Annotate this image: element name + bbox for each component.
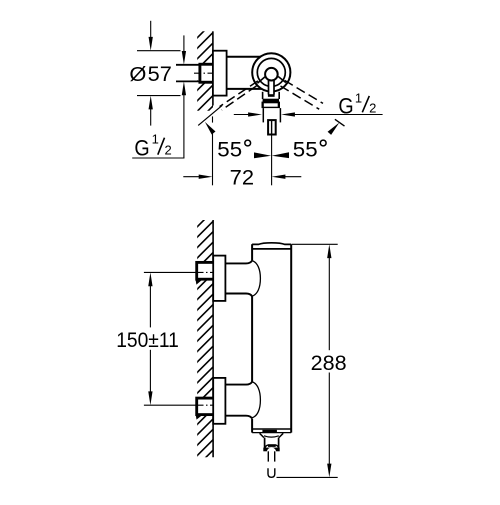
outlet tube right [279,108,281,122]
arrow at outlet left [248,112,262,116]
hose nipple stubs [267,451,269,461]
Ø57 dimension arrows [150,21,152,38]
lower connection centerline [144,404,198,406]
collar band 1 [263,99,279,102]
upper hex nut [197,262,214,279]
upper horn top [225,261,252,264]
upper nut foot [196,280,202,284]
G1/2 outlet dimension line [234,114,250,116]
arrow at outlet right [281,112,295,116]
hex nut (side view) [200,64,214,82]
svg-text:150±11: 150±11 [116,328,179,352]
swivel dashed line right lower [281,86,320,109]
svg-text:55: 55 [293,138,318,162]
svg-text:G: G [338,93,353,118]
outlet smile arc [264,436,279,437]
288 dimension line [328,256,330,350]
G1/2 wall dimension arrows [183,35,185,53]
body bottom seam [252,428,291,430]
lower nut foot [196,416,201,420]
72 dimension right [283,176,301,178]
G1/2 label shelf line [132,157,184,159]
swivel dashed line left lower [222,86,257,110]
supply pipe stub lines [176,64,201,66]
wall hatching (top view) [193,11,224,126]
outlet block left [264,438,266,451]
wall surface line (top view) [212,31,214,105]
outlet taper right [279,433,283,437]
288 extension top [292,243,338,245]
angle bowtie arrow right [272,152,289,158]
neck side right [278,92,280,99]
outlet tube left [262,108,264,122]
svg-text:1: 1 [355,91,362,106]
lower horn top [225,382,252,385]
swivel dashed line left upper [220,81,258,107]
angle bowtie arrow left [254,152,271,158]
body bottom edge [252,432,291,434]
svg-text:1: 1 [152,132,159,147]
neck side left [262,92,264,99]
valve inner circle [265,68,278,81]
svg-text:G: G [134,136,149,161]
body top edge [252,243,291,245]
lower escutcheon [213,378,225,424]
valve body middle circle [257,58,285,86]
svg-text:2: 2 [369,101,376,116]
handle stem [268,80,275,96]
spoke left [257,77,265,83]
svg-text:2: 2 [165,143,172,158]
wall hatching (front view) [193,200,224,470]
upper horn bottom [225,294,252,297]
upper horn bulge [252,261,260,297]
outlet center extension line [271,135,273,186]
outlet dark band [265,445,279,448]
body bottom black band [262,430,277,433]
pipe centerline (dash-dot) [194,72,214,74]
lower hex nut [197,398,214,415]
hose nipple [268,120,276,134]
body top seam [252,248,291,250]
upper escutcheon [213,256,225,301]
swivel dashed line right upper [285,80,323,103]
valve body outer circle [252,53,290,91]
150 dimension line [149,284,151,327]
upper connection centerline [144,271,198,273]
wall extension line [212,132,214,185]
lower horn bottom [225,416,252,419]
supply pipe interior white [186,66,200,80]
angle tick right [335,119,345,126]
svg-text:Ø: Ø [129,64,146,86]
svg-text:55: 55 [217,138,242,162]
svg-text:57: 57 [148,62,172,86]
body right edge [290,244,292,432]
outlet heavy band with arch [263,448,279,452]
outlet block right [278,438,280,451]
outlet taper left [260,433,264,437]
svg-text:288: 288 [311,351,347,375]
collar band 2 [262,102,281,109]
72 dimension left [183,176,201,178]
288 extension bottom [277,476,338,478]
pipe to valve body [227,56,261,58]
escutcheon (side view) [213,51,227,96]
wall extension dash [212,116,214,122]
Ø57 extension line bottom [137,95,181,97]
Ø57 extension line top [137,50,181,52]
body left edge segments [251,244,253,260]
lower horn bulge [252,382,260,418]
svg-text:72: 72 [230,166,254,190]
wall surface line (front view) [212,220,214,457]
angle arrow left [205,122,216,135]
hose U [268,468,275,477]
spoke right [278,77,286,83]
angle arrow right [328,123,340,135]
angle tick left [198,106,222,126]
